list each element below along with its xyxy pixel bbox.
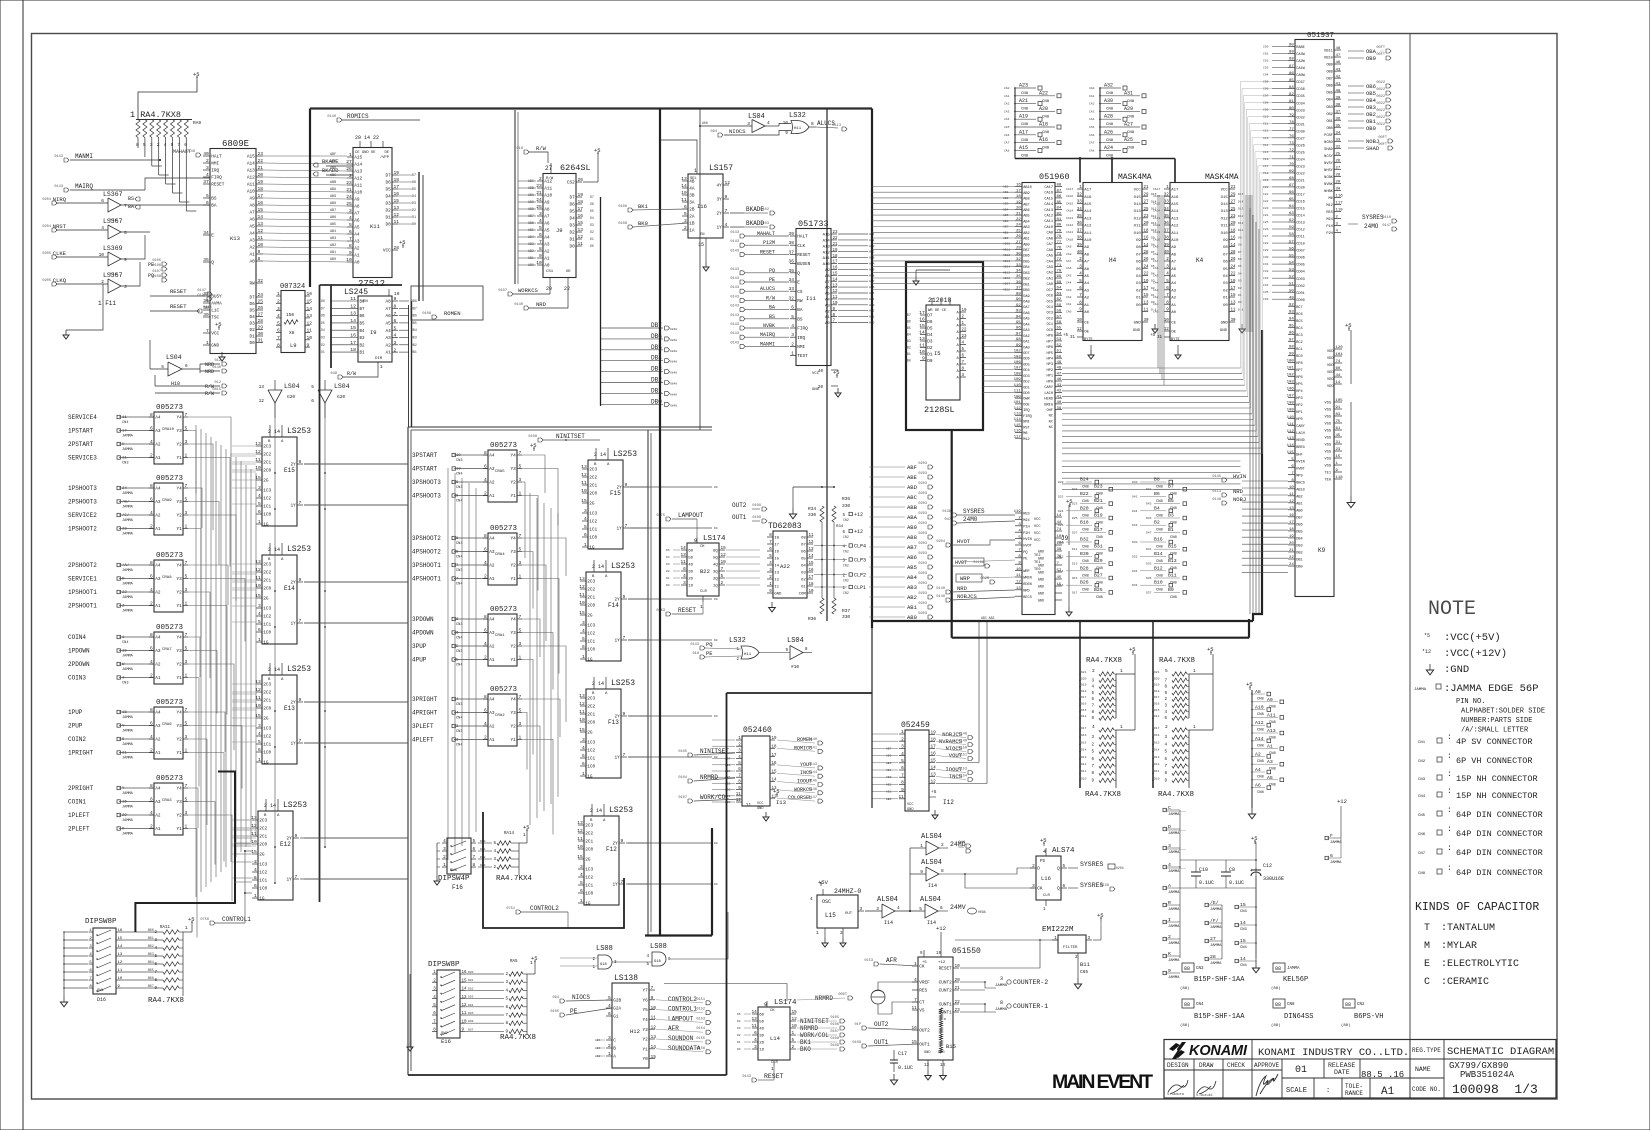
svg-text:Q: Q xyxy=(797,271,800,276)
svg-text:4: 4 xyxy=(277,313,280,319)
svg-text:CD02: CD02 xyxy=(1296,285,1305,289)
svg-text:7: 7 xyxy=(124,203,127,209)
VSS pin group xyxy=(1334,401,1342,403)
svg-text:005273: 005273 xyxy=(156,404,184,412)
svg-text:DB3: DB3 xyxy=(1023,272,1029,276)
svg-text:BA: BA xyxy=(797,308,803,313)
svg-text:12: 12 xyxy=(833,290,839,294)
svg-text:6: 6 xyxy=(683,567,686,572)
svg-text:CA0: CA0 xyxy=(1089,87,1095,90)
svg-text:HP3: HP3 xyxy=(1047,363,1053,367)
svg-text:22: 22 xyxy=(1289,556,1294,560)
svg-text:A11: A11 xyxy=(1267,712,1276,718)
svg-text:28: 28 xyxy=(1144,251,1150,255)
svg-text:1: 1 xyxy=(771,1066,774,1072)
svg-text:2C3: 2C3 xyxy=(263,445,271,450)
svg-text:CN8: CN8 xyxy=(1082,514,1090,518)
svg-text:NC: NC xyxy=(1049,426,1053,430)
svg-text:D0: D0 xyxy=(714,842,718,845)
svg-text:100: 100 xyxy=(1287,360,1295,364)
svg-text:4: 4 xyxy=(897,905,900,911)
svg-text:97: 97 xyxy=(1289,339,1294,343)
svg-text:CA14: CA14 xyxy=(1153,210,1160,213)
svg-text:3: 3 xyxy=(89,945,92,949)
svg-text:8: 8 xyxy=(1091,711,1094,715)
svg-text:5: 5 xyxy=(456,659,459,663)
svg-text:0750: 0750 xyxy=(200,918,209,922)
svg-text:2PSHOOT1: 2PSHOOT1 xyxy=(68,603,97,610)
svg-text:LACH: LACH xyxy=(1044,392,1053,396)
svg-text:AB2: AB2 xyxy=(595,1055,601,1058)
svg-text:CD26: CD26 xyxy=(1296,144,1305,148)
svg-text:VSS: VSS xyxy=(1325,422,1331,426)
svg-text:35: 35 xyxy=(1336,124,1341,128)
svg-text:19: 19 xyxy=(578,192,584,198)
svg-text:D15: D15 xyxy=(1238,193,1244,196)
svg-text:17: 17 xyxy=(258,193,264,199)
svg-text:9: 9 xyxy=(725,194,728,200)
svg-text:2: 2 xyxy=(736,658,739,662)
svg-text:38: 38 xyxy=(788,240,794,246)
svg-text:VDD: VDD xyxy=(1327,378,1333,382)
svg-text:CLR: CLR xyxy=(1043,894,1051,898)
svg-text:CN8: CN8 xyxy=(1021,108,1029,112)
svg-text:4: 4 xyxy=(150,659,153,665)
title block frame xyxy=(1164,1040,1556,1099)
svg-text:CN8: CN8 xyxy=(1156,486,1164,490)
svg-text:VCC: VCC xyxy=(1034,539,1040,543)
svg-text:LS253: LS253 xyxy=(287,545,311,554)
svg-text:CD12: CD12 xyxy=(1296,229,1305,233)
svg-text:OC7: OC7 xyxy=(1047,289,1053,293)
svg-text:5D: 5D xyxy=(688,557,693,561)
svg-text:O8: O8 xyxy=(801,537,806,541)
svg-text:5: 5 xyxy=(1018,536,1021,540)
svg-text:6: 6 xyxy=(738,768,741,772)
svg-text:(88): (88) xyxy=(1180,1023,1190,1028)
svg-text:VDD: VDD xyxy=(1327,371,1333,375)
svg-text:1PDOWN: 1PDOWN xyxy=(68,648,90,655)
svg-text:B: B xyxy=(592,692,595,696)
svg-text:NIOCS: NIOCS xyxy=(572,994,590,1001)
svg-text:8: 8 xyxy=(484,614,487,620)
svg-text:29: 29 xyxy=(1336,181,1341,185)
svg-text:BC5: BC5 xyxy=(1296,320,1302,324)
svg-text:23: 23 xyxy=(1144,215,1150,219)
svg-text:11: 11 xyxy=(651,1015,657,1021)
svg-text:26: 26 xyxy=(258,305,264,311)
svg-text:CN8: CN8 xyxy=(1021,139,1029,143)
svg-text:CK: CK xyxy=(700,545,705,549)
svg-text:CA0: CA0 xyxy=(1047,283,1053,287)
svg-text:D0: D0 xyxy=(714,598,718,601)
svg-text:0106: 0106 xyxy=(152,264,161,268)
svg-text:15: 15 xyxy=(577,854,583,860)
svg-text:JAMMA: JAMMA xyxy=(1168,908,1180,912)
svg-text:4: 4 xyxy=(1166,273,1169,277)
svg-text:I2: I2 xyxy=(774,579,779,583)
svg-text:CA17: CA17 xyxy=(1066,188,1073,191)
svg-text:105: 105 xyxy=(1336,399,1344,403)
svg-text:D6: D6 xyxy=(412,181,416,185)
svg-text:CD37: CD37 xyxy=(1296,81,1305,85)
svg-text:A22: A22 xyxy=(780,563,790,570)
svg-text:84: 84 xyxy=(1289,86,1294,90)
svg-text:A8: A8 xyxy=(354,205,360,210)
svg-text:0147: 0147 xyxy=(1382,224,1391,228)
svg-text:6: 6 xyxy=(584,532,587,538)
svg-text:15: 15 xyxy=(721,546,727,551)
label PE xyxy=(700,655,705,659)
svg-text:CA5: CA5 xyxy=(1047,255,1053,259)
svg-text:C10: C10 xyxy=(1263,116,1269,119)
svg-text:CRA1: CRA1 xyxy=(495,634,505,638)
svg-text:R34: R34 xyxy=(808,506,816,512)
svg-text:ABC: ABC xyxy=(907,494,918,501)
svg-text:2C2: 2C2 xyxy=(259,827,267,832)
svg-text:CARY: CARY xyxy=(1044,386,1053,390)
svg-text:9: 9 xyxy=(1091,717,1094,721)
svg-text:7: 7 xyxy=(89,977,92,981)
svg-text:8: 8 xyxy=(805,648,808,652)
svg-text:B11: B11 xyxy=(1168,573,1177,579)
svg-text:Y2: Y2 xyxy=(177,514,183,519)
svg-text:1 F11: 1 F11 xyxy=(98,300,116,307)
svg-text:10: 10 xyxy=(251,839,257,845)
svg-text:Y5: Y5 xyxy=(643,1008,649,1013)
svg-text:LS174: LS174 xyxy=(703,535,726,543)
svg-text:37: 37 xyxy=(1016,287,1021,291)
svg-text:C24: C24 xyxy=(1263,214,1269,217)
svg-text:12: 12 xyxy=(736,799,742,803)
svg-text:OC6: OC6 xyxy=(1047,295,1053,299)
svg-text:C21: C21 xyxy=(1263,193,1269,196)
signature draw xyxy=(1197,1081,1216,1094)
svg-text:C29: C29 xyxy=(1263,249,1269,252)
svg-text:56: 56 xyxy=(1057,321,1062,325)
svg-text:0848: 0848 xyxy=(670,361,677,364)
svg-text:59: 59 xyxy=(1289,226,1294,230)
svg-text:D21: D21 xyxy=(1154,671,1160,674)
svg-text:15: 15 xyxy=(462,979,468,983)
svg-text:0203: 0203 xyxy=(918,592,927,596)
svg-text:28: 28 xyxy=(1336,174,1341,178)
svg-text:CN4: CN4 xyxy=(1418,795,1426,799)
svg-text:A3: A3 xyxy=(489,550,495,555)
svg-text:RESET: RESET xyxy=(678,607,696,614)
svg-text:AB9: AB9 xyxy=(1023,192,1029,196)
svg-text:CONTROL1: CONTROL1 xyxy=(222,916,251,923)
svg-text:M6: M6 xyxy=(1328,197,1332,201)
svg-text:3: 3 xyxy=(456,725,459,729)
svg-text:13: 13 xyxy=(581,464,587,470)
svg-text:51: 51 xyxy=(1289,282,1294,286)
svg-text:6: 6 xyxy=(456,632,459,636)
svg-text:A1: A1 xyxy=(1381,1086,1395,1098)
svg-text:OB2: OB2 xyxy=(1326,113,1332,117)
svg-text:12: 12 xyxy=(577,828,583,834)
svg-text:0153: 0153 xyxy=(958,768,967,772)
svg-text:005273: 005273 xyxy=(490,606,518,614)
svg-text:CN8: CN8 xyxy=(1082,589,1090,593)
svg-text:13: 13 xyxy=(924,1064,930,1068)
svg-text:D10: D10 xyxy=(1058,541,1064,544)
svg-text:10: 10 xyxy=(456,454,461,458)
svg-text:9: 9 xyxy=(1079,309,1082,313)
svg-text:CHECK: CHECK xyxy=(1227,1062,1245,1069)
svg-text:16: 16 xyxy=(350,333,356,339)
svg-text:DB2: DB2 xyxy=(905,346,911,350)
svg-text:CD36: CD36 xyxy=(1296,88,1305,92)
svg-text:I6: I6 xyxy=(774,551,779,555)
svg-text:B27: B27 xyxy=(1094,573,1103,579)
svg-text:2C0: 2C0 xyxy=(587,721,595,726)
svg-text:A16: A16 xyxy=(1171,196,1179,200)
svg-text:86: 86 xyxy=(1289,72,1294,76)
svg-text:VS: VS xyxy=(919,1009,925,1014)
svg-text:MANMI: MANMI xyxy=(75,153,93,160)
svg-text:00FT: 00FT xyxy=(1376,53,1385,57)
svg-text:10: 10 xyxy=(536,260,542,266)
svg-text:1C2: 1C2 xyxy=(263,497,271,502)
svg-text:JAMMA: JAMMA xyxy=(1210,926,1222,930)
wires bank mesh xyxy=(522,455,545,493)
svg-text:16: 16 xyxy=(912,1026,918,1031)
svg-text:OUT2: OUT2 xyxy=(919,1029,930,1034)
svg-text:5: 5 xyxy=(519,628,522,634)
svg-text:5: 5 xyxy=(646,963,649,967)
label RESET mid xyxy=(666,612,671,616)
svg-text:BK1: BK1 xyxy=(800,1039,811,1046)
svg-text:1: 1 xyxy=(443,863,446,868)
svg-text:2: 2 xyxy=(608,1043,611,1049)
svg-text:A1: A1 xyxy=(155,604,161,609)
svg-text:CN8: CN8 xyxy=(1156,500,1164,504)
svg-text:58: 58 xyxy=(1057,310,1062,314)
svg-text:D2: D2 xyxy=(570,231,576,236)
svg-text:7: 7 xyxy=(519,694,522,700)
svg-text:+5: +5 xyxy=(1150,334,1156,338)
svg-text:D0: D0 xyxy=(1238,301,1242,304)
svg-text:OUT1: OUT1 xyxy=(919,1043,930,1048)
svg-text:C25: C25 xyxy=(1263,221,1269,224)
svg-text:3: 3 xyxy=(1336,223,1339,227)
svg-text:B14: B14 xyxy=(1154,551,1163,557)
svg-text:CE: CE xyxy=(1084,322,1089,326)
svg-text:3PRIGHT: 3PRIGHT xyxy=(412,696,438,703)
svg-text:4: 4 xyxy=(901,752,904,757)
svg-text:7: 7 xyxy=(1079,294,1082,298)
svg-text:DB1: DB1 xyxy=(1023,283,1029,287)
svg-text:JAMMA: JAMMA xyxy=(122,668,134,672)
svg-text:SERVICE1: SERVICE1 xyxy=(68,576,97,583)
ground I5 xyxy=(915,276,917,281)
svg-text:CA10: CA10 xyxy=(1044,226,1053,230)
wires LS04 G20 to bank xyxy=(274,403,276,884)
svg-text:DB3: DB3 xyxy=(905,339,911,343)
svg-text:RA14: RA14 xyxy=(504,832,515,836)
svg-text:A4: A4 xyxy=(155,416,161,421)
svg-text:1: 1 xyxy=(584,542,587,548)
svg-text:12: 12 xyxy=(259,398,265,404)
svg-text:16: 16 xyxy=(462,971,468,975)
svg-text:2: 2 xyxy=(89,937,92,941)
svg-text:O15: O15 xyxy=(1134,196,1142,200)
svg-text:3: 3 xyxy=(185,659,188,665)
svg-text:37: 37 xyxy=(788,249,794,255)
label CONTROL2 bank xyxy=(516,910,521,914)
svg-text:17: 17 xyxy=(919,310,925,316)
svg-text:1: 1 xyxy=(519,574,522,580)
svg-text:D14: D14 xyxy=(1154,749,1160,752)
svg-text:0107: 0107 xyxy=(498,289,507,293)
svg-text:30: 30 xyxy=(258,331,264,337)
svg-text:D15: D15 xyxy=(1072,577,1078,580)
svg-text:91: 91 xyxy=(1336,406,1341,410)
jamma connector column CD34 xyxy=(1163,808,1166,811)
svg-text:1: 1 xyxy=(580,898,583,904)
svg-text:1Y: 1Y xyxy=(291,622,297,627)
svg-text:9: 9 xyxy=(1164,692,1167,696)
svg-text:2: 2 xyxy=(206,158,209,164)
svg-text:CA7: CA7 xyxy=(1066,260,1072,263)
svg-text:18: 18 xyxy=(578,199,584,205)
svg-text:GND: GND xyxy=(1038,592,1044,596)
svg-text:CN3: CN3 xyxy=(456,486,462,490)
svg-text:DB7: DB7 xyxy=(1023,249,1029,253)
svg-text:Y3: Y3 xyxy=(177,429,183,434)
svg-text:16: 16 xyxy=(118,929,123,933)
svg-text:1C3: 1C3 xyxy=(585,868,593,873)
svg-text:CLR: CLR xyxy=(771,1061,779,1065)
svg-text:00FT: 00FT xyxy=(1378,143,1387,147)
svg-text:1C0: 1C0 xyxy=(263,751,271,756)
svg-text:23: 23 xyxy=(346,180,352,186)
svg-text:D5: D5 xyxy=(590,209,594,213)
svg-text:5: 5 xyxy=(89,961,92,965)
svg-text:GND: GND xyxy=(211,344,219,349)
svg-text:HP5: HP5 xyxy=(1047,352,1053,356)
svg-text:3: 3 xyxy=(1088,936,1091,941)
svg-text:13: 13 xyxy=(681,176,687,182)
svg-text:C16: C16 xyxy=(1263,158,1269,161)
svg-text:JAMMA: JAMMA xyxy=(122,519,134,523)
svg-text:84: 84 xyxy=(1057,207,1062,211)
svg-text:69: 69 xyxy=(1057,275,1062,279)
svg-text::VCC(+5V): :VCC(+5V) xyxy=(1444,632,1501,644)
svg-text:CN7: CN7 xyxy=(1418,852,1426,856)
svg-text:71: 71 xyxy=(1289,156,1294,160)
connector cluster B16 xyxy=(1140,541,1166,543)
svg-text:D5: D5 xyxy=(250,309,256,314)
svg-text:2C3: 2C3 xyxy=(259,819,267,824)
svg-text:0204: 0204 xyxy=(1116,866,1124,870)
svg-text:B07: B07 xyxy=(148,984,154,988)
svg-text:1: 1 xyxy=(700,604,703,610)
svg-text:JAMMA: JAMMA xyxy=(1210,944,1222,948)
svg-text::: : xyxy=(1447,752,1452,761)
svg-text:005273: 005273 xyxy=(490,525,518,533)
svg-text:Y3: Y3 xyxy=(177,577,183,582)
svg-text:D7: D7 xyxy=(321,306,325,310)
svg-text:16: 16 xyxy=(578,213,584,219)
svg-text:OB5: OB5 xyxy=(1366,90,1376,97)
svg-text:2D: 2D xyxy=(688,578,693,582)
svg-text:B: B xyxy=(264,814,267,818)
svg-text:E: E xyxy=(797,281,800,286)
svg-text:2G: 2G xyxy=(589,502,595,507)
svg-text:B32: B32 xyxy=(1080,537,1089,543)
svg-text:CN2: CN2 xyxy=(843,518,849,522)
svg-text:A2: A2 xyxy=(544,250,550,255)
svg-text:14: 14 xyxy=(651,1044,657,1050)
svg-text:22: 22 xyxy=(258,158,264,164)
svg-text:HVIN: HVIN xyxy=(1023,538,1032,542)
svg-text:DB6: DB6 xyxy=(1023,255,1029,259)
label RESET L14 xyxy=(752,1078,757,1082)
svg-text:A: A xyxy=(957,364,960,368)
svg-text:A9: A9 xyxy=(250,197,256,202)
svg-text:4P SV CONNECTOR: 4P SV CONNECTOR xyxy=(1456,737,1533,747)
svg-text:RES: RES xyxy=(1326,211,1332,215)
svg-text:D30: D30 xyxy=(1132,541,1138,544)
svg-text:9: 9 xyxy=(299,697,302,703)
connector cluster B24 xyxy=(1066,481,1092,483)
svg-text:B: B xyxy=(590,819,593,823)
svg-text:13: 13 xyxy=(258,221,264,227)
svg-text:A3: A3 xyxy=(250,239,256,244)
svg-text:0148: 0148 xyxy=(1212,498,1221,502)
svg-text:14: 14 xyxy=(1231,244,1237,248)
svg-text:KONAMI INDUSTRY CO..LTD.: KONAMI INDUSTRY CO..LTD. xyxy=(1258,1047,1409,1059)
svg-text:GND: GND xyxy=(938,1051,944,1055)
svg-text:A4: A4 xyxy=(489,618,495,623)
svg-text:8: 8 xyxy=(1164,772,1167,776)
svg-text:CN8: CN8 xyxy=(1156,529,1164,533)
svg-text:1C3: 1C3 xyxy=(587,624,595,629)
svg-text:M24: M24 xyxy=(1326,218,1332,222)
svg-text:4: 4 xyxy=(150,734,153,740)
svg-text:D37: D37 xyxy=(1146,591,1152,594)
svg-text:29: 29 xyxy=(1231,193,1237,197)
svg-text:46: 46 xyxy=(1336,61,1341,65)
svg-text:A2: A2 xyxy=(489,481,495,486)
svg-text:D33: D33 xyxy=(1146,563,1152,566)
svg-text:Y4: Y4 xyxy=(511,537,517,542)
svg-text:A12: A12 xyxy=(1084,225,1092,229)
svg-text:CD32: CD32 xyxy=(1296,116,1305,120)
svg-text:35: 35 xyxy=(788,268,794,274)
svg-text:DB5: DB5 xyxy=(1023,261,1029,265)
svg-text:CA12: CA12 xyxy=(1044,215,1053,219)
svg-text:6: 6 xyxy=(580,888,583,894)
svg-text:81: 81 xyxy=(1289,100,1294,104)
svg-text:2C3: 2C3 xyxy=(587,580,595,585)
svg-text:88.5 .16: 88.5 .16 xyxy=(1361,1070,1404,1080)
svg-text:AFR: AFR xyxy=(668,1025,679,1032)
svg-text:L9: L9 xyxy=(290,342,297,349)
svg-text:NIRQ: NIRQ xyxy=(53,196,67,203)
svg-text:30: 30 xyxy=(1336,188,1341,192)
svg-text:G20: G20 xyxy=(337,394,345,400)
svg-text:64: 64 xyxy=(1057,287,1062,291)
svg-text:VCC: VCC xyxy=(383,249,391,254)
svg-text:27: 27 xyxy=(1144,201,1150,205)
svg-text:9: 9 xyxy=(651,995,654,1001)
svg-text:SYSRES: SYSRES xyxy=(1080,861,1104,868)
svg-text:6: 6 xyxy=(89,969,92,973)
svg-text:A0: A0 xyxy=(1171,311,1176,315)
